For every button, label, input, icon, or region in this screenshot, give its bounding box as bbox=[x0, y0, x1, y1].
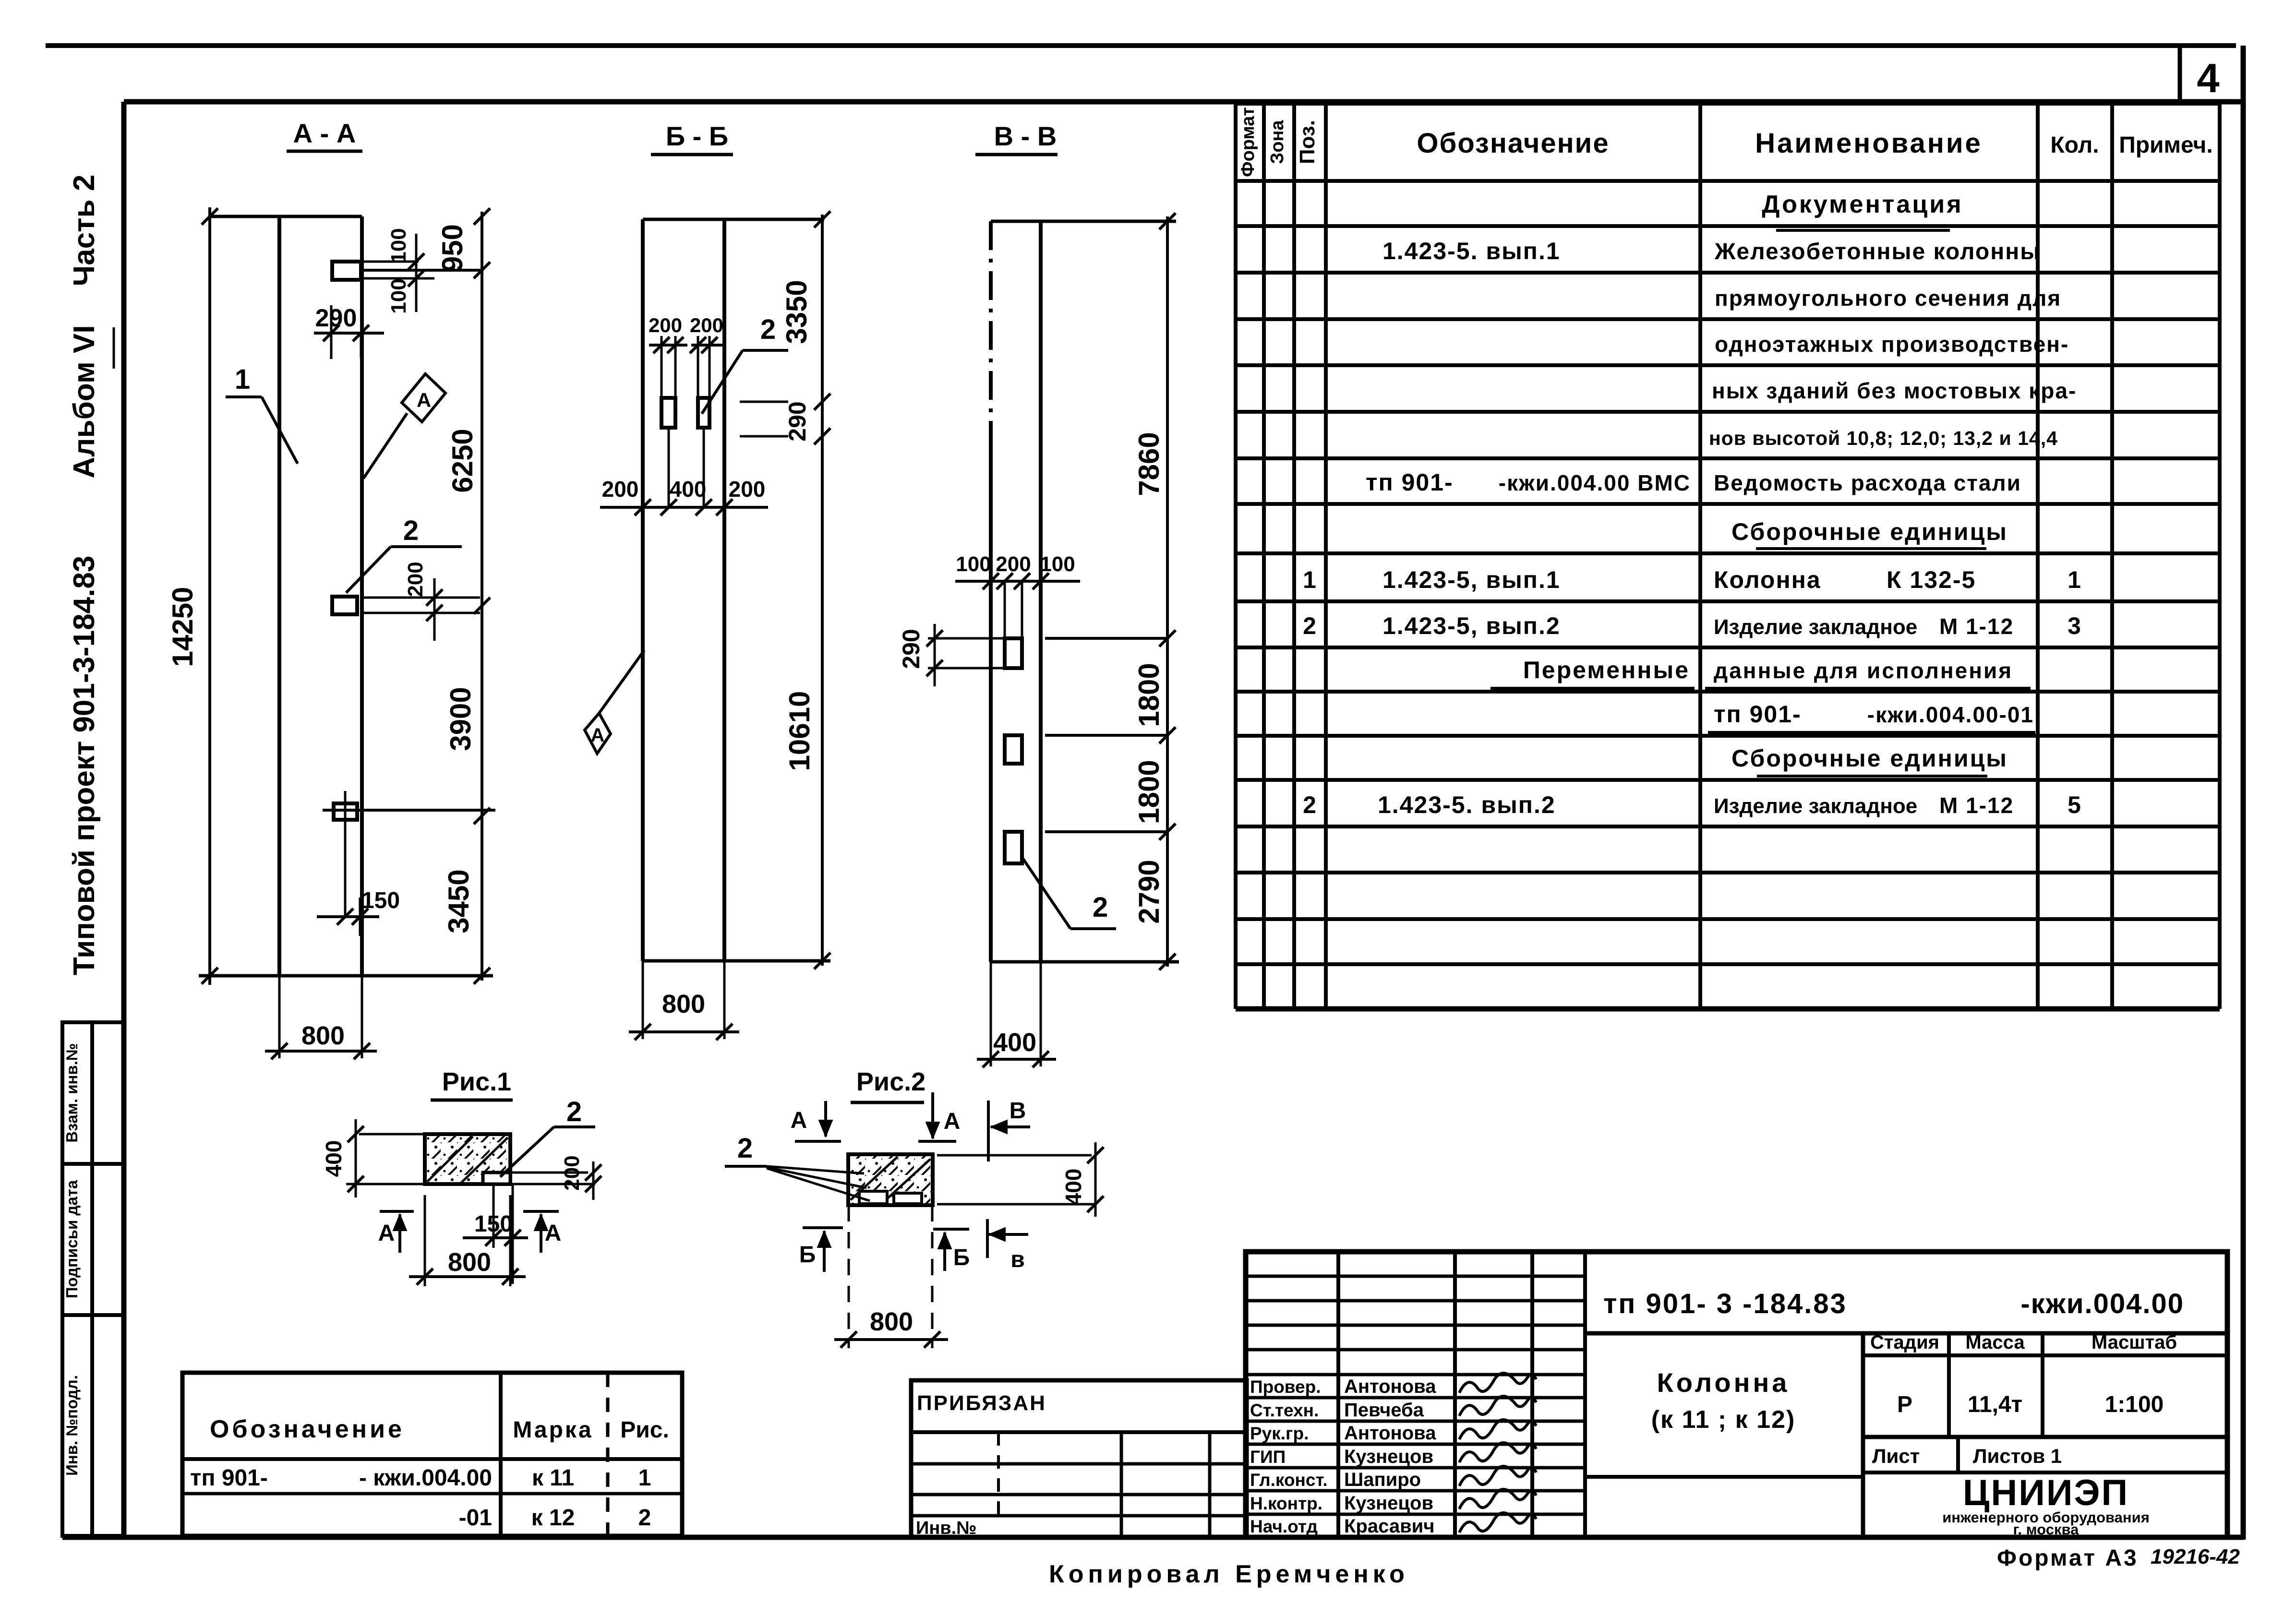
svg-text:Документация: Документация bbox=[1762, 191, 1963, 218]
svg-text:ных зданий без мостовых кра-: ных зданий без мостовых кра- bbox=[1712, 378, 2077, 403]
svg-text:Инв. №подл.: Инв. №подл. bbox=[63, 1375, 81, 1476]
svg-text:К 132-5: К 132-5 bbox=[1887, 566, 1976, 593]
svg-text:Инв.№: Инв.№ bbox=[916, 1518, 977, 1538]
svg-text:Антонова: Антонова bbox=[1344, 1423, 1436, 1444]
svg-text:Провер.: Провер. bbox=[1250, 1377, 1321, 1397]
svg-text:800: 800 bbox=[870, 1307, 913, 1336]
svg-text:Изделие закладное: Изделие закладное bbox=[1714, 615, 1917, 639]
svg-text:2: 2 bbox=[638, 1505, 651, 1531]
svg-text:Зона: Зона bbox=[1267, 120, 1287, 164]
svg-text:А: А bbox=[944, 1109, 961, 1134]
svg-text:Рис.1: Рис.1 bbox=[442, 1067, 511, 1096]
svg-text:нов высотой 10,8; 12,0; 13,2 и: нов высотой 10,8; 12,0; 13,2 и 14,4 bbox=[1709, 427, 2058, 449]
svg-text:2: 2 bbox=[1303, 612, 1317, 639]
svg-text:ПРИБЯЗАН: ПРИБЯЗАН bbox=[917, 1391, 1046, 1415]
svg-text:Рук.гр.: Рук.гр. bbox=[1250, 1424, 1309, 1443]
svg-text:Обозначение: Обозначение bbox=[210, 1415, 405, 1443]
svg-text:290: 290 bbox=[898, 629, 925, 669]
svg-text:5: 5 bbox=[2068, 791, 2082, 818]
svg-text:Рис.2: Рис.2 bbox=[856, 1067, 926, 1096]
svg-text:Типовой проект 901-3-184.83: Типовой проект 901-3-184.83 bbox=[68, 556, 101, 976]
svg-text:-кжи.004.00 ВМС: -кжи.004.00 ВМС bbox=[1499, 470, 1691, 495]
svg-text:2: 2 bbox=[760, 314, 776, 345]
svg-text:Колонна: Колонна bbox=[1657, 1367, 1790, 1398]
svg-text:Кол.: Кол. bbox=[2050, 132, 2099, 158]
svg-text:тп 901-: тп 901- bbox=[1714, 701, 1802, 728]
svg-text:-кжи.004.00-01: -кжи.004.00-01 bbox=[1867, 702, 2034, 727]
svg-text:-01: -01 bbox=[459, 1505, 492, 1531]
svg-text:100: 100 bbox=[387, 278, 410, 313]
svg-text:200: 200 bbox=[602, 477, 639, 502]
svg-text:Подписьи дата: Подписьи дата bbox=[63, 1180, 81, 1298]
svg-text:Ведомость расхода стали: Ведомость расхода стали bbox=[1714, 470, 2021, 495]
svg-text:200: 200 bbox=[560, 1155, 584, 1190]
svg-text:Альбом VI: Альбом VI bbox=[68, 325, 101, 478]
svg-text:М 1-12: М 1-12 bbox=[1939, 793, 2014, 818]
svg-text:- кжи.004.00: - кжи.004.00 bbox=[359, 1465, 492, 1491]
svg-text:В - В: В - В bbox=[994, 121, 1057, 151]
svg-text:800: 800 bbox=[662, 990, 705, 1018]
svg-text:Шапиро: Шапиро bbox=[1344, 1469, 1421, 1490]
svg-text:А - А: А - А bbox=[293, 118, 356, 148]
svg-text:19216-42: 19216-42 bbox=[2151, 1545, 2240, 1568]
svg-text:Часть 2: Часть 2 bbox=[68, 175, 101, 287]
svg-text:3450: 3450 bbox=[443, 869, 475, 933]
svg-text:2: 2 bbox=[1303, 791, 1317, 818]
svg-text:800: 800 bbox=[448, 1248, 491, 1277]
svg-text:одноэтажных производствен-: одноэтажных производствен- bbox=[1715, 332, 2069, 357]
svg-text:150: 150 bbox=[474, 1211, 513, 1237]
svg-text:Поз.: Поз. bbox=[1296, 120, 1319, 164]
svg-text:400: 400 bbox=[670, 477, 707, 502]
svg-text:М 1-12: М 1-12 bbox=[1939, 614, 2014, 639]
svg-text:Лист: Лист bbox=[1872, 1445, 1920, 1467]
svg-text:Наименование: Наименование bbox=[1755, 128, 1983, 159]
svg-text:прямоугольного сечения для: прямоугольного сечения для bbox=[1715, 286, 2061, 311]
svg-text:Колонна: Колонна bbox=[1714, 566, 1821, 593]
svg-text:Листов 1: Листов 1 bbox=[1973, 1445, 2062, 1467]
svg-text:14250: 14250 bbox=[167, 587, 199, 667]
svg-text:Кузнецов: Кузнецов bbox=[1344, 1446, 1433, 1467]
svg-text:200: 200 bbox=[996, 552, 1031, 576]
svg-text:2: 2 bbox=[566, 1096, 582, 1127]
svg-text:200: 200 bbox=[690, 314, 723, 336]
svg-text:100: 100 bbox=[387, 228, 410, 263]
svg-text:ГИП: ГИП bbox=[1250, 1447, 1286, 1467]
svg-text:Б: Б bbox=[953, 1245, 970, 1270]
svg-text:400: 400 bbox=[993, 1028, 1036, 1057]
svg-text:Железобетонные колонны: Железобетонные колонны bbox=[1714, 239, 2041, 264]
svg-text:Формат А3: Формат А3 bbox=[1997, 1545, 2139, 1571]
svg-text:Н.контр.: Н.контр. bbox=[1250, 1494, 1322, 1513]
svg-text:Примеч.: Примеч. bbox=[2119, 132, 2213, 158]
svg-text:А: А bbox=[591, 725, 605, 746]
svg-text:Масштаб: Масштаб bbox=[2092, 1332, 2177, 1353]
svg-text:Стадия: Стадия bbox=[1870, 1332, 1939, 1353]
svg-text:Б - Б: Б - Б bbox=[666, 121, 728, 151]
svg-text:200: 200 bbox=[729, 477, 766, 502]
svg-text:3: 3 bbox=[2068, 612, 2082, 639]
svg-text:1: 1 bbox=[2068, 566, 2082, 593]
svg-text:Певчеба: Певчеба bbox=[1344, 1400, 1424, 1421]
svg-text:Ст.техн.: Ст.техн. bbox=[1250, 1401, 1319, 1420]
svg-text:1.423-5, вып.2: 1.423-5, вып.2 bbox=[1382, 612, 1561, 639]
svg-text:1.423-5. вып.2: 1.423-5. вып.2 bbox=[1378, 791, 1556, 818]
svg-text:1800: 1800 bbox=[1133, 760, 1165, 824]
svg-text:Гл.конст.: Гл.конст. bbox=[1250, 1470, 1328, 1490]
svg-text:1800: 1800 bbox=[1133, 663, 1165, 727]
svg-text:3350: 3350 bbox=[781, 280, 813, 344]
svg-text:(к 11 ; к 12): (к 11 ; к 12) bbox=[1651, 1406, 1796, 1434]
svg-text:-кжи.004.00: -кжи.004.00 bbox=[2020, 1288, 2184, 1319]
svg-text:Антонова: Антонова bbox=[1344, 1376, 1436, 1397]
svg-text:1: 1 bbox=[638, 1465, 651, 1491]
svg-text:400: 400 bbox=[321, 1140, 346, 1177]
svg-text:Кузнецов: Кузнецов bbox=[1344, 1493, 1433, 1514]
svg-text:1:100: 1:100 bbox=[2105, 1392, 2164, 1417]
svg-text:2: 2 bbox=[403, 515, 419, 546]
svg-text:6250: 6250 bbox=[446, 429, 479, 492]
svg-text:11,4т: 11,4т bbox=[1968, 1392, 2022, 1417]
svg-text:А: А bbox=[545, 1221, 562, 1246]
svg-text:400: 400 bbox=[1061, 1169, 1086, 1206]
svg-text:4: 4 bbox=[2197, 56, 2219, 101]
svg-text:1.423-5. вып.1: 1.423-5. вып.1 bbox=[1382, 238, 1561, 264]
svg-text:3900: 3900 bbox=[445, 687, 477, 751]
svg-text:Обозначение: Обозначение bbox=[1417, 128, 1609, 159]
svg-text:Формат: Формат bbox=[1238, 107, 1258, 177]
svg-text:1: 1 bbox=[1303, 566, 1317, 593]
svg-text:Нач.отд: Нач.отд bbox=[1250, 1517, 1318, 1536]
svg-text:1: 1 bbox=[235, 364, 250, 395]
svg-text:Сборочные единицы: Сборочные единицы bbox=[1731, 518, 2008, 545]
svg-text:800: 800 bbox=[301, 1021, 345, 1050]
svg-text:2: 2 bbox=[1093, 892, 1108, 923]
svg-text:Марка: Марка bbox=[513, 1417, 593, 1443]
svg-text:в: в bbox=[1010, 1247, 1025, 1272]
svg-text:Красавич: Красавич bbox=[1344, 1516, 1434, 1537]
svg-text:10610: 10610 bbox=[783, 691, 816, 771]
svg-text:данные для исполнения: данные для исполнения bbox=[1714, 658, 2013, 683]
svg-text:Переменные: Переменные bbox=[1523, 657, 1690, 683]
svg-text:г. москва: г. москва bbox=[2013, 1521, 2079, 1538]
svg-text:к 12: к 12 bbox=[531, 1505, 575, 1531]
svg-text:тп 901-: тп 901- bbox=[190, 1465, 268, 1491]
svg-text:Копировал Еремченко: Копировал Еремченко bbox=[1049, 1560, 1409, 1588]
svg-text:7860: 7860 bbox=[1133, 432, 1165, 496]
svg-text:Р: Р bbox=[1897, 1392, 1912, 1417]
svg-text:Взам. инв.№: Взам. инв.№ bbox=[63, 1043, 81, 1142]
svg-text:150: 150 bbox=[361, 888, 400, 913]
svg-text:Сборочные единицы: Сборочные единицы bbox=[1731, 745, 2008, 772]
svg-text:100: 100 bbox=[956, 552, 991, 576]
svg-text:1.423-5, вып.1: 1.423-5, вып.1 bbox=[1382, 566, 1561, 593]
svg-text:2: 2 bbox=[737, 1133, 753, 1164]
svg-text:к 11: к 11 bbox=[532, 1465, 574, 1491]
svg-text:200: 200 bbox=[404, 562, 427, 597]
svg-text:290: 290 bbox=[315, 304, 357, 332]
svg-text:2790: 2790 bbox=[1133, 860, 1165, 923]
svg-text:А: А bbox=[417, 389, 431, 411]
svg-text:А: А bbox=[791, 1108, 807, 1133]
svg-text:Изделие закладное: Изделие закладное bbox=[1714, 794, 1917, 818]
svg-text:тп 901- 3 -184.83: тп 901- 3 -184.83 bbox=[1603, 1288, 1847, 1319]
svg-text:А: А bbox=[378, 1221, 395, 1246]
svg-text:950: 950 bbox=[436, 224, 469, 272]
svg-text:Масса: Масса bbox=[1965, 1332, 2025, 1353]
svg-text:100: 100 bbox=[1040, 552, 1075, 576]
svg-text:Б: Б bbox=[799, 1242, 816, 1268]
svg-text:200: 200 bbox=[649, 314, 682, 336]
svg-text:Рис.: Рис. bbox=[620, 1417, 669, 1443]
svg-text:тп 901-: тп 901- bbox=[1366, 469, 1454, 496]
svg-text:В: В bbox=[1010, 1098, 1026, 1124]
svg-text:ЦНИИЭП: ЦНИИЭП bbox=[1963, 1472, 2129, 1513]
